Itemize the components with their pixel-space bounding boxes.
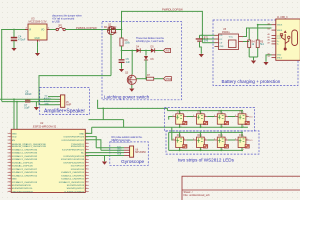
svg-text:4: 4 xyxy=(193,115,194,117)
svg-text:2: 2 xyxy=(205,138,206,140)
svg-text:1: 1 xyxy=(222,113,223,115)
section box strip2 xyxy=(166,131,259,154)
svg-text:2: 2 xyxy=(226,115,227,117)
svg-text:17: 17 xyxy=(9,185,11,187)
svg-text:B5: B5 xyxy=(268,37,270,39)
diode D6 vertical xyxy=(144,51,154,79)
svg-text:VI: VI xyxy=(29,30,32,32)
wire U5 to resistors xyxy=(243,28,249,37)
wire branch to row rails xyxy=(102,108,104,119)
svg-text:22: 22 xyxy=(86,185,88,187)
svg-text:11: 11 xyxy=(9,165,11,167)
svg-text:Latching power switch: Latching power switch xyxy=(104,95,150,100)
svg-text:26: 26 xyxy=(86,172,88,174)
wire Q3 drain xyxy=(131,51,133,75)
svg-text:30: 30 xyxy=(86,159,88,161)
wire rail 3v3 xyxy=(0,98,55,100)
wire amp power corner xyxy=(39,76,111,105)
svg-text:VCC: VCC xyxy=(229,36,234,38)
svg-text:VBUS: VBUS xyxy=(277,25,283,27)
svg-text:A4: A4 xyxy=(268,22,270,25)
svg-text:IO26/DAC_2/GPIO26: IO26/DAC_2/GPIO26 xyxy=(12,165,34,168)
svg-text:GND: GND xyxy=(79,133,84,135)
svg-text:1uF: 1uF xyxy=(126,61,131,64)
svg-text:IO22/VSPIWP/GPIO22: IO22/VSPIWP/GPIO22 xyxy=(62,140,85,142)
LED D9 xyxy=(214,110,228,128)
wire esp32 pin to rail xyxy=(85,127,91,133)
wire data row rail xyxy=(89,119,124,121)
svg-text:AMP: AMP xyxy=(66,104,72,107)
section box amplifier xyxy=(40,88,90,115)
wire resistor bottoms xyxy=(249,56,258,58)
resistor R4 xyxy=(248,28,256,57)
svg-text:3: 3 xyxy=(243,149,244,151)
svg-text:SD1/SPID/GPIO8: SD1/SPID/GPIO8 xyxy=(67,185,85,187)
ground gyro xyxy=(102,156,107,165)
svg-text:S1: S1 xyxy=(268,56,270,58)
svg-text:24: 24 xyxy=(86,178,88,180)
svg-text:100k: 100k xyxy=(125,42,131,45)
svg-text:3: 3 xyxy=(201,149,202,151)
wire usb gnd xyxy=(266,55,272,62)
connector J5 amp xyxy=(60,95,72,107)
svg-text:PWRDLOOPSW: PWRDLOOPSW xyxy=(162,8,183,12)
wire Q2 drain up to top rail xyxy=(121,11,123,30)
svg-text:2: 2 xyxy=(184,115,185,117)
wire row1 gnd rail long xyxy=(92,126,248,128)
usb trident xyxy=(282,34,289,48)
svg-text:13: 13 xyxy=(9,172,11,174)
svg-text:1: 1 xyxy=(201,113,202,115)
wire battery to U5 pins xyxy=(200,34,215,36)
svg-text:GND: GND xyxy=(45,104,50,106)
battery BT1 xyxy=(196,35,209,54)
svg-text:3: 3 xyxy=(243,126,244,128)
ground battery mid xyxy=(251,57,256,64)
svg-text:3: 3 xyxy=(201,126,202,128)
svg-text:2: 2 xyxy=(226,138,227,140)
svg-text:J1 USB_C: J1 USB_C xyxy=(277,17,288,19)
svg-text:33: 33 xyxy=(86,149,88,151)
svg-text:IO34/ADC1_CH6/GPIO34: IO34/ADC1_CH6/GPIO34 xyxy=(12,149,38,152)
note text disconnect jumper xyxy=(52,15,82,24)
svg-text:IO21/VSPIHD/GPIO21: IO21/VSPIHD/GPIO21 xyxy=(62,150,85,152)
svg-text:3: 3 xyxy=(222,149,223,151)
svg-text:IO17/GPIO17: IO17/GPIO17 xyxy=(71,166,85,168)
wire Q2 gate down xyxy=(110,34,112,76)
svg-text:2: 2 xyxy=(247,138,248,140)
svg-text:VBUS: VBUS xyxy=(277,30,283,32)
LED D7 xyxy=(173,110,187,128)
svg-text:19: 19 xyxy=(9,191,11,193)
wire input rail vertical left xyxy=(1,30,3,101)
wire gyro 3v3 jog xyxy=(85,137,96,148)
wire to USB vbus xyxy=(249,27,271,29)
ic U2 esp32 pins xyxy=(8,133,89,193)
svg-text:SD0/SPIQ/GPIO7: SD0/SPIQ/GPIO7 xyxy=(67,188,85,190)
title block frame xyxy=(182,176,302,202)
svg-text:34: 34 xyxy=(86,146,88,148)
svg-text:DO: DO xyxy=(249,117,253,119)
global label RST xyxy=(164,48,172,52)
svg-text:IO35/ADC1_CH7/GPIO35: IO35/ADC1_CH7/GPIO35 xyxy=(12,152,38,155)
svg-text:1: 1 xyxy=(180,136,181,138)
svg-text:D-: D- xyxy=(277,44,279,46)
svg-text:IO25/DAC_1/GPIO25: IO25/DAC_1/GPIO25 xyxy=(12,161,34,164)
svg-text:CMD/SPICS0/GPIO11: CMD/SPICS0/GPIO11 xyxy=(12,191,35,193)
wire latch out down xyxy=(98,100,168,111)
ic U2 esp32 body xyxy=(11,129,85,192)
svg-text:ESP32-WROOM-32: ESP32-WROOM-32 xyxy=(33,124,57,128)
svg-text:2: 2 xyxy=(247,115,248,117)
transistor Q2 xyxy=(104,24,122,35)
svg-text:Gyroscope: Gyroscope xyxy=(121,159,145,165)
wire row2 data in xyxy=(172,127,173,140)
wire amp pin stubs xyxy=(48,97,60,105)
resistor R7 xyxy=(136,74,163,80)
note text diodes schottky xyxy=(136,37,165,43)
svg-text:IO19/VSPIQ/GPIO19: IO19/VSPIQ/GPIO19 xyxy=(63,156,84,158)
svg-text:EN: EN xyxy=(12,140,15,142)
connector gyro xyxy=(124,146,147,157)
wire row2 gnd rail xyxy=(169,149,243,151)
svg-text:AUDIO-: AUDIO- xyxy=(44,100,51,103)
svg-text:A5: A5 xyxy=(268,33,270,36)
svg-text:SD2/SPIHD/GPIO9: SD2/SPIHD/GPIO9 xyxy=(12,185,32,187)
svg-text:IO23/VSPID/GPIO23: IO23/VSPID/GPIO23 xyxy=(64,137,85,139)
svg-text:SHLD: SHLD xyxy=(277,57,283,59)
svg-text:to USB: to USB xyxy=(52,21,60,24)
svg-text:3: 3 xyxy=(180,149,181,151)
LED pin numbers xyxy=(173,113,248,152)
capacitor C4 xyxy=(11,29,26,48)
svg-text:B4: B4 xyxy=(268,29,270,31)
resistor R5 xyxy=(256,25,264,57)
svg-text:5k1: 5k1 xyxy=(260,43,265,46)
section box latching power switch xyxy=(102,22,182,100)
wire gyro rows xyxy=(85,148,124,156)
svg-text:1: 1 xyxy=(180,113,181,115)
svg-text:IO14/ADC2_CH6/GPIO14: IO14/ADC2_CH6/GPIO14 xyxy=(12,171,38,174)
svg-text:A6: A6 xyxy=(268,39,270,42)
wire gyro gnd jog xyxy=(85,140,101,150)
ground under C5 xyxy=(119,69,124,72)
IC U5 xyxy=(215,28,244,49)
LED D8 xyxy=(194,110,208,128)
diode D5 xyxy=(151,45,155,52)
svg-text:NC: NC xyxy=(81,153,85,155)
svg-text:AUDIO+: AUDIO+ xyxy=(44,97,52,100)
jumper JP1 xyxy=(56,27,65,30)
svg-text:IO32/ADC1_CH4/GPIO32: IO32/ADC1_CH4/GPIO32 xyxy=(12,155,38,158)
svg-text:4: 4 xyxy=(214,138,215,140)
svg-text:RXD0/GPIO3: RXD0/GPIO3 xyxy=(71,146,85,148)
svg-text:20: 20 xyxy=(86,191,88,193)
svg-text:1: 1 xyxy=(243,136,244,138)
svg-text:27: 27 xyxy=(86,169,88,171)
capacitor C5 xyxy=(119,51,131,69)
LED D13 xyxy=(214,132,228,152)
wire jumper to Q2 xyxy=(65,29,108,31)
wire diode row xyxy=(122,50,164,52)
svg-text:RST: RST xyxy=(166,49,172,53)
svg-text:1: 1 xyxy=(243,113,244,115)
wire LED chain row xyxy=(186,116,235,118)
wire rail gnd xyxy=(2,101,55,103)
wire regulator input rail xyxy=(2,29,26,31)
diode D4 xyxy=(136,45,140,52)
svg-text:PWR: PWR xyxy=(166,77,172,81)
svg-text:25: 25 xyxy=(86,175,88,177)
wire row1 vcc rail xyxy=(167,110,243,112)
wire regulator out to jumper xyxy=(50,29,56,31)
svg-text:12: 12 xyxy=(9,169,11,171)
svg-text:IO4/ADC2_CH0/GPIO4: IO4/ADC2_CH0/GPIO4 xyxy=(61,171,85,174)
svg-text:two strips of WS2812 LEDs: two strips of WS2812 LEDs xyxy=(178,158,235,163)
svg-text:VO: VO xyxy=(41,30,45,32)
svg-text:IO16/GPIO16: IO16/GPIO16 xyxy=(71,169,85,171)
svg-text:2: 2 xyxy=(184,138,185,140)
wire row1 data in xyxy=(169,117,173,120)
svg-text:schottky type, I won't work: schottky type, I won't work xyxy=(136,40,165,43)
ground under BT1 xyxy=(199,54,204,57)
wire LED chain row xyxy=(186,139,235,141)
svg-text:SDA: SDA xyxy=(117,153,122,156)
wire esp32 gnd vertical xyxy=(16,102,18,130)
svg-text:10uF: 10uF xyxy=(24,108,30,110)
section box battery charging xyxy=(213,20,298,86)
pins xyxy=(272,25,276,58)
svg-text:SENSOR_VN/ADC1_CH3/GPIO39: SENSOR_VN/ADC1_CH3/GPIO39 xyxy=(12,145,47,148)
svg-text:2: 2 xyxy=(205,115,206,117)
svg-text:GND: GND xyxy=(35,38,40,40)
svg-text:GND: GND xyxy=(277,55,282,57)
svg-text:4: 4 xyxy=(235,138,236,140)
ground under gnd rail xyxy=(34,102,39,111)
LED D10 xyxy=(235,110,249,128)
ground under C4 xyxy=(11,48,16,51)
svg-text:18: 18 xyxy=(9,188,11,190)
svg-text:IO5/VSPICS0/GPIO5: IO5/VSPICS0/GPIO5 xyxy=(63,162,84,164)
svg-text:29: 29 xyxy=(86,162,88,164)
svg-text:JP1: JP1 xyxy=(58,24,63,28)
LEDs generated below xyxy=(173,110,253,151)
svg-text:PWRDLOOPSW: PWRDLOOPSW xyxy=(76,26,97,30)
svg-text:VSS: VSS xyxy=(219,46,224,48)
ground under Q3 xyxy=(129,85,134,92)
svg-text:VDD: VDD xyxy=(12,137,17,139)
svg-text:GND: GND xyxy=(12,133,17,135)
svg-text:14: 14 xyxy=(9,175,11,177)
wire esp32 3v3 vertical xyxy=(13,99,15,129)
svg-text:23: 23 xyxy=(86,182,88,184)
svg-text:IO33/ADC1_CH5/GPIO33: IO33/ADC1_CH5/GPIO33 xyxy=(12,158,38,161)
svg-text:IO13/ADC2_CH4/GPIO13: IO13/ADC2_CH4/GPIO13 xyxy=(12,181,38,184)
resistor R6 xyxy=(120,30,131,51)
svg-text:3: 3 xyxy=(180,126,181,128)
svg-text:IO2/ADC2_CH2/GPIO2: IO2/ADC2_CH2/GPIO2 xyxy=(61,178,85,181)
svg-text:4: 4 xyxy=(193,138,194,140)
svg-text:DO: DO xyxy=(249,140,253,142)
svg-text:15: 15 xyxy=(9,178,11,180)
global label PWR xyxy=(164,77,172,81)
LED D14 xyxy=(235,132,249,152)
svg-text:21: 21 xyxy=(86,188,88,190)
svg-text:GND: GND xyxy=(12,179,17,181)
svg-text:MPU6050: MPU6050 xyxy=(135,151,146,154)
usb shield capsule xyxy=(292,30,298,46)
section box strip1 xyxy=(164,108,254,131)
LED D11 xyxy=(173,132,187,152)
svg-text:4: 4 xyxy=(235,115,236,117)
section box gyroscope xyxy=(110,142,149,165)
svg-text:IO12/ADC2_CH5/GPIO12: IO12/ADC2_CH5/GPIO12 xyxy=(12,174,38,177)
svg-text:16: 16 xyxy=(9,182,11,184)
svg-text:File: untitled.kicad_sch: File: untitled.kicad_sch xyxy=(184,193,211,197)
svg-text:Battery charging + protection: Battery charging + protection xyxy=(222,79,281,84)
svg-text:MC33269-3.3V: MC33269-3.3V xyxy=(29,20,47,24)
svg-text:SD3/SPIWP/GPIO10: SD3/SPIWP/GPIO10 xyxy=(12,188,33,190)
USB connector J1 xyxy=(268,17,301,61)
svg-text:CLK/SPICLK/GPIO6: CLK/SPICLK/GPIO6 xyxy=(64,191,85,193)
ground under U3 xyxy=(35,43,40,57)
svg-text:3: 3 xyxy=(222,126,223,128)
svg-text:Amplifier+Speaker: Amplifier+Speaker xyxy=(44,109,85,115)
regulator U3 xyxy=(26,17,51,44)
svg-text:3V6: 3V6 xyxy=(204,39,209,42)
svg-text:IO27/ADC2_CH7/GPIO27: IO27/ADC2_CH7/GPIO27 xyxy=(12,168,38,171)
svg-text:DW01x: DW01x xyxy=(222,31,231,34)
transistor Q3 xyxy=(125,72,136,86)
svg-text:IO0/ADC2_CH1/GPIO0: IO0/ADC2_CH1/GPIO0 xyxy=(61,174,85,177)
svg-text:4: 4 xyxy=(214,115,215,117)
note text gyroscope mounting xyxy=(112,136,143,142)
svg-text:4: 4 xyxy=(173,115,174,117)
svg-text:28: 28 xyxy=(86,165,88,167)
svg-text:4: 4 xyxy=(173,138,174,140)
svg-text:10: 10 xyxy=(9,162,11,164)
wire top rail xyxy=(122,10,203,12)
svg-text:1: 1 xyxy=(201,136,202,138)
wire row2 rails feed xyxy=(168,132,170,150)
svg-text:A7: A7 xyxy=(268,42,270,45)
svg-text:IO18/VSPICLK/GPIO18: IO18/VSPICLK/GPIO18 xyxy=(61,159,85,161)
capacitor C8 between rails xyxy=(24,91,32,109)
wire top rail down xyxy=(201,11,203,43)
svg-text:1: 1 xyxy=(222,136,223,138)
svg-text:470uF: 470uF xyxy=(18,37,26,41)
svg-text:35: 35 xyxy=(86,143,88,145)
LED D12 xyxy=(194,132,208,152)
wire row2 vcc rail xyxy=(169,131,243,133)
svg-text:100nF: 100nF xyxy=(25,94,32,96)
svg-text:IO15/ADC2_CH3/GPIO15: IO15/ADC2_CH3/GPIO15 xyxy=(59,181,85,184)
ground usb xyxy=(263,62,268,65)
